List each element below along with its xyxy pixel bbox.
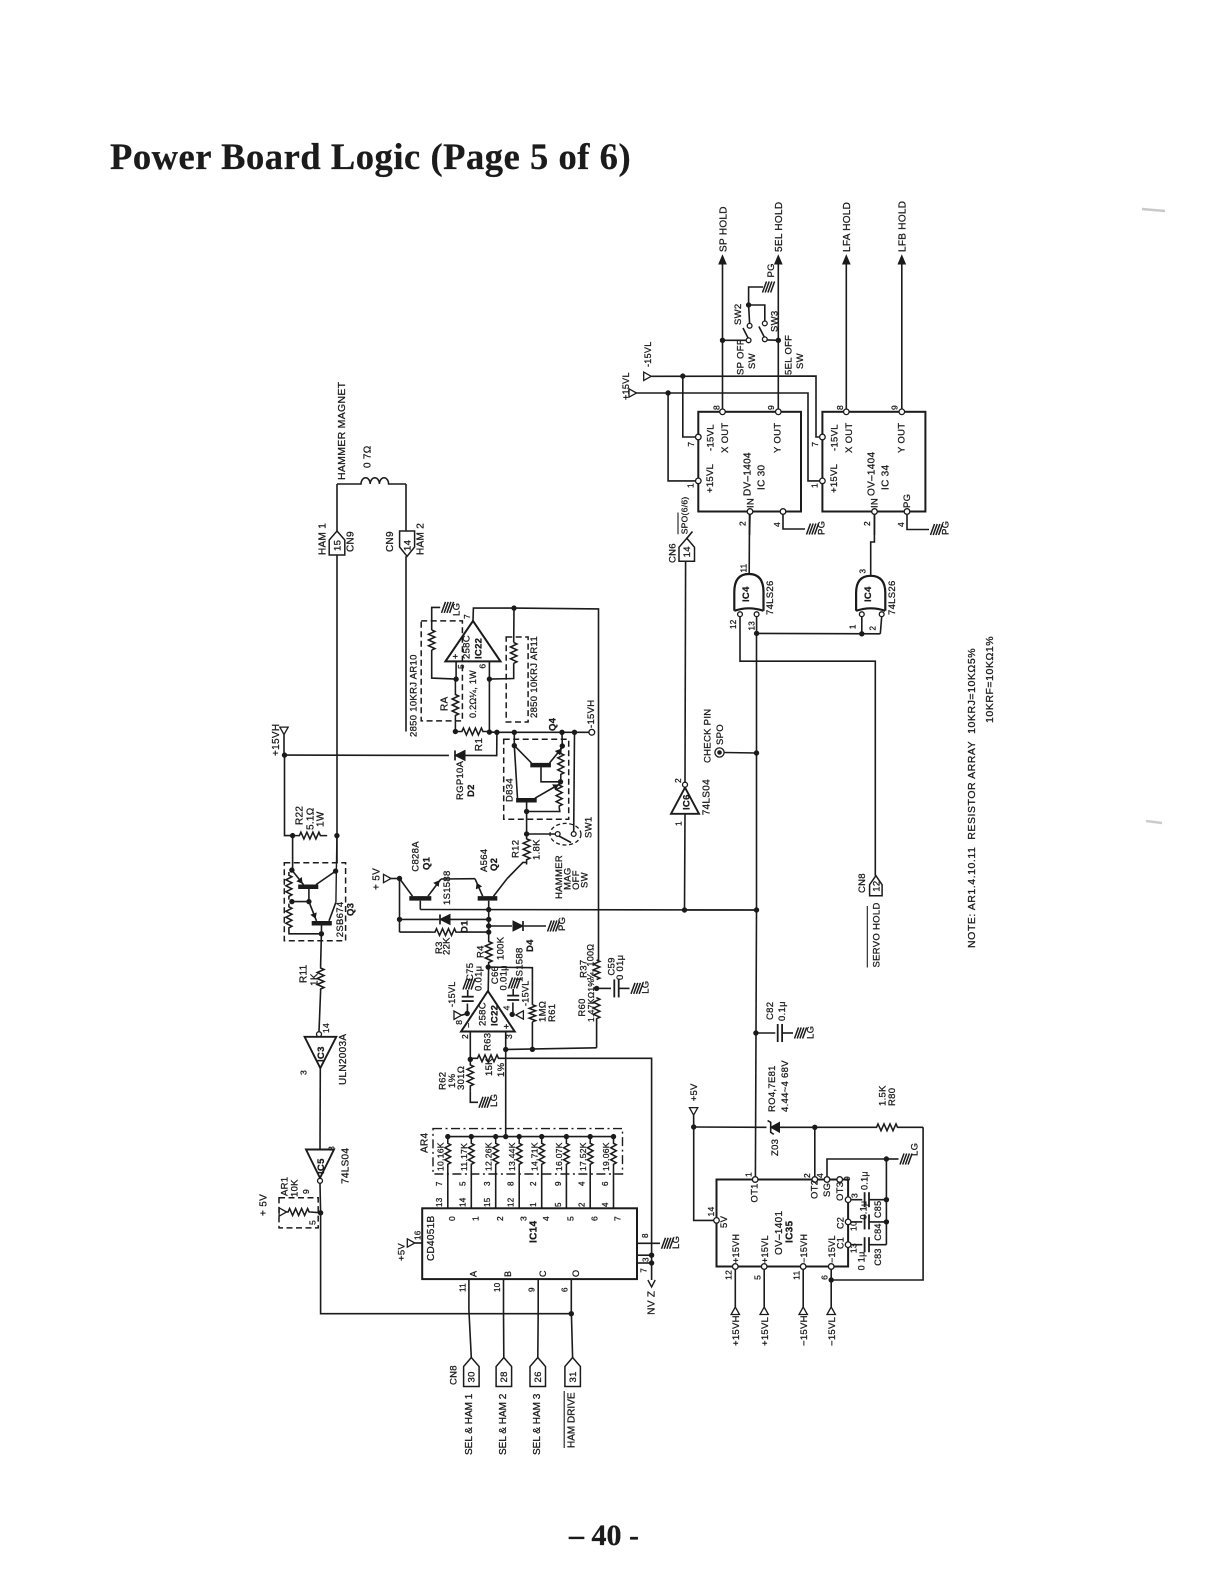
wire pin2 down	[469, 1032, 471, 1060]
svg-text:A: A	[469, 1271, 479, 1277]
wire to CN8 connector 28	[503, 1310, 505, 1358]
terminal -15VH circle	[589, 729, 595, 735]
IC35 pin3	[845, 1197, 851, 1203]
capacitor C59 0.001u	[597, 987, 611, 989]
AR4 resistor 16.07K with pins	[564, 1137, 570, 1171]
wire Q1 to Q2	[441, 878, 475, 880]
svg-text:14: 14	[402, 540, 413, 551]
svg-text:D2: D2	[466, 784, 477, 797]
IC4b input bubbles	[859, 612, 864, 617]
resistor R80 1.5K	[876, 1124, 898, 1131]
svg-text:O: O	[571, 1270, 581, 1277]
IC14 pin3 stub	[637, 1254, 652, 1256]
node D1 right	[487, 917, 491, 921]
svg-text:74LS04: 74LS04	[702, 779, 713, 815]
node R4 bottom junction	[486, 965, 490, 969]
svg-text:R12: R12	[510, 840, 521, 858]
svg-text:28: 28	[499, 1371, 510, 1382]
svg-text:OV–1401: OV–1401	[774, 1211, 785, 1255]
svg-text:-15VL: -15VL	[447, 981, 457, 1007]
svg-text:1: 1	[529, 1202, 538, 1207]
Q3 T2 emitter down	[320, 925, 322, 933]
svg-text:C: C	[538, 1270, 548, 1277]
svg-text:PG: PG	[902, 494, 913, 508]
node check pin branch	[754, 751, 758, 755]
svg-text:−: −	[464, 1022, 474, 1028]
svg-text:R11: R11	[299, 964, 310, 983]
svg-text:-15VL: -15VL	[521, 980, 531, 1006]
wire +15VL down to IC30 pin1	[668, 393, 695, 481]
svg-text:5: 5	[307, 1220, 317, 1225]
wire servo node down to IC35 pin1	[755, 910, 756, 1177]
node R12 top	[524, 832, 528, 836]
wire pin6 down	[488, 661, 490, 679]
svg-text:10: 10	[493, 1282, 502, 1292]
svg-text:CHECK PIN: CHECK PIN	[702, 709, 713, 763]
diode D2 RGP10A	[285, 754, 449, 756]
Q3 T2 base diagonal	[309, 902, 317, 921]
svg-text:−15VL: −15VL	[827, 1317, 838, 1346]
svg-text:0.2Ω¼, 1W: 0.2Ω¼, 1W	[468, 670, 478, 718]
node R3 right	[487, 930, 491, 934]
switch SW3	[762, 321, 767, 326]
wire to CN8 connector 26	[537, 1310, 539, 1358]
svg-text:CN9: CN9	[346, 531, 357, 552]
IC35 pin 6 &#8722;15VL	[828, 1264, 834, 1270]
svg-text:2: 2	[578, 1202, 587, 1207]
svg-text:+15VL: +15VL	[760, 1317, 771, 1346]
svg-text:D1: D1	[459, 920, 470, 933]
svg-text:R61: R61	[547, 1004, 558, 1022]
svg-text:8: 8	[641, 1233, 650, 1238]
wire check-pin vertical	[756, 633, 758, 910]
svg-text:C1: C1	[836, 1237, 846, 1249]
svg-text:6: 6	[819, 1275, 829, 1280]
svg-text:D4: D4	[525, 939, 536, 952]
svg-text:X OUT: X OUT	[844, 422, 855, 453]
scan artifact top right	[1142, 209, 1165, 211]
svg-text:IN: IN	[745, 498, 756, 508]
wire +5V node down	[399, 879, 401, 933]
svg-text:1: 1	[744, 1172, 754, 1177]
wire LFB HOLD line	[901, 263, 903, 409]
capacitor C82 0.1u	[756, 1032, 775, 1034]
IC35 pin 5 +15VL	[761, 1264, 767, 1270]
power symbol &#8722;15VL	[827, 1307, 835, 1315]
svg-text:+15VL: +15VL	[705, 464, 716, 493]
power symbol +15VH	[731, 1307, 739, 1315]
IC34 pin4	[904, 509, 910, 515]
svg-text:+5V: +5V	[396, 1243, 407, 1261]
resistor R37 100ohm	[593, 960, 599, 980]
svg-text:SPO(6/6): SPO(6/6)	[680, 496, 690, 534]
nand gate IC4b 74LS26	[856, 576, 885, 611]
wire Q3 to R11	[320, 934, 323, 966]
svg-text:C82: C82	[765, 1002, 776, 1020]
transistor Q4 D834 dashed box	[504, 739, 569, 819]
svg-text:-15VL: -15VL	[643, 341, 653, 367]
wire R4 node to R61 top	[488, 967, 532, 1005]
resistor R62 301ohm 1%	[467, 1059, 473, 1091]
svg-text:C2: C2	[836, 1217, 846, 1229]
wire AR10 bottom to pin5 node	[432, 650, 456, 679]
Q1 base wire down	[419, 901, 421, 910]
svg-text:5: 5	[566, 1216, 576, 1221]
node zener to OT2	[813, 1125, 817, 1129]
svg-text:CN8: CN8	[857, 873, 868, 893]
svg-text:IC14: IC14	[529, 1221, 540, 1243]
AR4 resistor 14.71K with pins	[539, 1137, 545, 1171]
svg-text:8: 8	[454, 1020, 464, 1025]
wire SP hold to SW2	[723, 339, 747, 341]
svg-text:1S1588: 1S1588	[514, 947, 525, 982]
svg-text:SW: SW	[747, 353, 758, 369]
resistor R12 1.8K	[523, 834, 530, 865]
IC30 pin4	[780, 509, 786, 515]
svg-text:2: 2	[673, 778, 683, 783]
svg-text:IC6: IC6	[681, 794, 692, 810]
Q3 T1 collector diagonal	[316, 871, 336, 885]
svg-text:C85: C85	[873, 1201, 883, 1218]
svg-text:26: 26	[533, 1371, 544, 1382]
svg-text:LG: LG	[671, 1236, 682, 1249]
svg-text:19.06K: 19.06K	[601, 1142, 611, 1171]
capacitor C75 0.01u	[466, 1004, 468, 1014]
diode D1 1S1588	[400, 918, 440, 920]
svg-text:+5V: +5V	[689, 1083, 700, 1101]
svg-text:9: 9	[842, 1176, 852, 1181]
ground LG at C59	[631, 983, 635, 994]
svg-text:IN: IN	[869, 498, 880, 508]
node R1 left	[453, 729, 457, 733]
svg-text:11: 11	[739, 563, 748, 572]
wire pin1 down	[861, 617, 863, 634]
IC35 pin14 5V	[714, 1218, 720, 1224]
svg-text:9: 9	[890, 405, 900, 410]
check pin CHECK PIN SPO	[715, 748, 724, 757]
IC14 CD4051B box	[422, 1208, 637, 1279]
ground LG at SG	[900, 1154, 904, 1165]
wire coil left to HAM1	[336, 484, 338, 531]
resistor array AR11 dashed box	[506, 637, 528, 722]
Q3 transistor T1 base bar	[298, 885, 318, 890]
svg-text:301Ω: 301Ω	[456, 1066, 467, 1090]
svg-text:2: 2	[802, 1173, 812, 1178]
scan artifact mid right	[1146, 821, 1162, 823]
IC34 OV-1404 box	[822, 412, 925, 512]
ground LG at AR10	[442, 602, 446, 613]
node D1 junction left	[397, 917, 401, 921]
wire SP HOLD line	[722, 263, 724, 409]
IC35 pin 11 &#8722;15VH	[800, 1264, 806, 1270]
IC35 pin4 SG	[824, 1177, 830, 1183]
IC35 pin 12 +15VH	[733, 1264, 739, 1270]
svg-text:0: 0	[447, 1216, 457, 1221]
svg-text:0.1μ: 0.1μ	[859, 1201, 869, 1220]
svg-text:+: +	[451, 653, 461, 659]
svg-text:14: 14	[706, 1206, 716, 1216]
node -15VL to IC30	[681, 374, 685, 378]
power symbol +15VL	[760, 1307, 768, 1315]
wire pin5 down	[455, 661, 457, 679]
Q1 emitter diagonal	[400, 879, 413, 897]
svg-text:SP OFF: SP OFF	[735, 339, 746, 375]
IC34 pin8	[844, 409, 850, 415]
wire pin 6 down	[830, 1269, 832, 1307]
svg-text:OT1: OT1	[749, 1183, 760, 1202]
svg-text:9: 9	[766, 405, 776, 410]
svg-text:IC22: IC22	[489, 1005, 500, 1026]
IC30 DV-1404 box	[698, 412, 801, 512]
svg-text:CD4051B: CD4051B	[426, 1216, 437, 1261]
svg-text:2: 2	[495, 1216, 505, 1221]
wire IC4a output up to IC30 pin2	[748, 514, 750, 574]
wire R63-AR4 vertical	[505, 1050, 507, 1137]
wire pin4	[510, 1012, 514, 1016]
svg-text:CN8: CN8	[448, 1365, 459, 1385]
connector CN8 pin 28	[496, 1358, 512, 1387]
svg-text:258C: 258C	[461, 635, 472, 659]
wire to CN8 connector 31	[571, 1310, 572, 1358]
wire SG up to LG	[827, 1159, 884, 1177]
svg-text:LFB HOLD: LFB HOLD	[898, 201, 909, 252]
svg-text:IC22: IC22	[473, 638, 484, 659]
wire SW3 to SEL hold	[767, 339, 778, 341]
power symbol &#8722;15VH	[799, 1307, 807, 1315]
svg-text:8: 8	[507, 1181, 516, 1186]
svg-text:1: 1	[848, 624, 857, 629]
svg-text:8: 8	[327, 1146, 337, 1151]
wire IC4b output up to IC34 pin2	[871, 514, 875, 576]
svg-text:3: 3	[858, 569, 867, 574]
inverter IC3 ULN2003A	[317, 1032, 322, 1037]
wire coil right to HAM2	[405, 484, 407, 531]
nand gate IC4a 74LS26	[734, 574, 763, 611]
svg-text:3: 3	[641, 1257, 650, 1262]
wire +5V down to pin14	[694, 1127, 714, 1220]
IC14 pin8 LG ground	[637, 1242, 660, 1244]
svg-text:9: 9	[528, 1287, 537, 1292]
wire R1 to D2 node	[489, 731, 497, 733]
connector CN8 pin 30	[464, 1358, 480, 1387]
wire R80 return to -15VL pin	[831, 1127, 923, 1280]
ground PG at D4	[548, 921, 552, 932]
C75 ground hatches	[463, 979, 467, 990]
wire to CN8 connector 30	[469, 1310, 471, 1358]
svg-text:AR4: AR4	[420, 1133, 431, 1153]
svg-text:SEL & HAM 3: SEL & HAM 3	[532, 1393, 543, 1455]
svg-text:1.8K: 1.8K	[531, 839, 542, 860]
wire R63 line to NVZ column	[506, 1058, 652, 1255]
svg-text:5EL HOLD: 5EL HOLD	[774, 202, 785, 252]
svg-text:4: 4	[896, 522, 906, 527]
svg-text:2850 10KRJ AR10: 2850 10KRJ AR10	[408, 654, 419, 737]
connector CN8 pin 31	[565, 1358, 581, 1387]
svg-text:¼, 100Ω: ¼, 100Ω	[586, 944, 596, 980]
svg-text:4: 4	[601, 1202, 610, 1207]
svg-text:+15VH: +15VH	[731, 1315, 742, 1346]
svg-text:C828A: C828A	[410, 841, 421, 872]
svg-text:+15VL: +15VL	[829, 464, 840, 493]
svg-text:14.71K: 14.71K	[529, 1142, 539, 1171]
svg-text:3: 3	[299, 1070, 309, 1075]
svg-text:+15VL: +15VL	[760, 1235, 770, 1263]
resistor R22 5.1ohm 1W	[293, 832, 328, 839]
svg-text:9: 9	[301, 1189, 311, 1194]
svg-text:7: 7	[686, 442, 696, 447]
IC34 pin1	[820, 478, 826, 484]
transistor Q1 C828A base bar	[409, 896, 431, 901]
svg-text:11: 11	[791, 1270, 801, 1279]
svg-text:10K: 10K	[289, 1179, 300, 1197]
svg-text:0.01μ: 0.01μ	[473, 966, 484, 991]
svg-text:CN6: CN6	[667, 543, 678, 563]
Q3 T1 base to mid node	[308, 889, 310, 902]
node ham drive junction	[569, 1312, 573, 1316]
wire R11 to IC3	[319, 991, 321, 1031]
svg-text:OT2: OT2	[809, 1180, 820, 1199]
svg-text:0.1μ: 0.1μ	[860, 1171, 870, 1190]
svg-text:2: 2	[460, 1034, 470, 1039]
svg-text:LG: LG	[909, 1143, 920, 1156]
NVZ arrow	[648, 1280, 655, 1287]
wire node line y910	[685, 909, 757, 911]
svg-text:RGP10A: RGP10A	[455, 760, 466, 800]
IC4a input bubbles	[738, 612, 743, 617]
Q4 T2 left diagonal	[514, 746, 517, 799]
connector CN9 pin 15 HAM1	[329, 531, 345, 555]
svg-text:Z03: Z03	[770, 1139, 781, 1156]
wire HAM1 down to R22/Q3	[336, 555, 338, 863]
svg-text:5: 5	[752, 1275, 762, 1280]
svg-text:14: 14	[459, 1197, 468, 1207]
wire LFA HOLD line	[845, 263, 847, 409]
connector CN8 pin 12	[870, 876, 883, 896]
svg-text:2SB674: 2SB674	[335, 902, 346, 938]
svg-text:7: 7	[639, 1268, 648, 1273]
svg-text:-15VH: -15VH	[586, 700, 597, 728]
svg-text:Q3: Q3	[345, 903, 356, 916]
wire AR11 top to node	[513, 608, 515, 642]
svg-text:SW1: SW1	[583, 817, 594, 839]
svg-text:LG: LG	[805, 1026, 816, 1039]
Q4 T2 base vertical	[526, 803, 528, 835]
ground PG above switches	[763, 282, 767, 293]
capacitor C84 0.1u	[851, 1221, 862, 1223]
svg-text:PG: PG	[766, 263, 777, 277]
svg-text:12: 12	[871, 881, 882, 892]
svg-text:11: 11	[458, 1283, 467, 1292]
svg-text:X OUT: X OUT	[720, 422, 731, 453]
svg-text:3: 3	[518, 1216, 528, 1221]
wire pin 11 down	[802, 1269, 804, 1307]
Q2 base wire down	[488, 901, 490, 941]
IC30 pin8	[720, 409, 726, 415]
node Q4 mid	[558, 780, 562, 784]
wire -15VL to pin8	[462, 1014, 467, 1015]
svg-text:OV–1404: OV–1404	[867, 452, 878, 496]
IC35 OV-1401 box	[717, 1180, 849, 1267]
svg-text:B: B	[503, 1271, 513, 1277]
wire R22 left into Q3	[292, 836, 294, 871]
resistor AR1 element	[287, 1209, 311, 1216]
svg-text:LG: LG	[640, 981, 651, 994]
node output/AR11 top	[512, 606, 516, 610]
svg-text:Power Board Logic (Page 5 of 6: Power Board Logic (Page 5 of 6)	[110, 136, 631, 177]
svg-text:Q2: Q2	[489, 858, 500, 871]
svg-text:2: 2	[529, 1181, 538, 1186]
wire into Q4 right node	[561, 732, 563, 746]
svg-text:+15VL: +15VL	[621, 372, 631, 400]
svg-text:0 01μ: 0 01μ	[615, 955, 626, 980]
Q2 emitter diagonal	[475, 879, 483, 897]
svg-text:NOTE: AR1.4.10.11 RESISTOR AR: NOTE: AR1.4.10.11 RESISTOR ARRAY 10KRJ=1…	[966, 648, 978, 948]
svg-text:IC4: IC4	[741, 586, 752, 602]
svg-text:Y OUT: Y OUT	[896, 423, 907, 453]
inductor hammer magnet coil	[337, 478, 406, 484]
node +15VL to IC30	[666, 391, 670, 395]
svg-text:-15VL: -15VL	[705, 424, 716, 451]
wire OT2 down	[814, 1127, 816, 1177]
wire SW2 node to SW3	[749, 305, 765, 321]
wire AR11 bottom to pin6 node	[489, 663, 513, 679]
svg-text:8: 8	[712, 405, 722, 410]
svg-text:15: 15	[483, 1197, 492, 1207]
switch SW2	[746, 338, 751, 343]
svg-text:HAM 1: HAM 1	[318, 523, 329, 555]
IC14 pin7 stub	[637, 1262, 652, 1264]
svg-text:2850 10KRJ AR11: 2850 10KRJ AR11	[529, 636, 540, 718]
svg-text:– 40 -: – 40 -	[568, 1519, 639, 1552]
IC30 pin2	[747, 509, 753, 515]
resistor R63 15K 1%	[470, 1055, 505, 1062]
IC35 pin2 OT2	[812, 1177, 818, 1183]
svg-text:12: 12	[723, 1270, 733, 1280]
Q1 collector diagonal	[428, 879, 441, 896]
svg-text:SPO: SPO	[715, 724, 726, 745]
wire PG stub	[749, 287, 763, 305]
svg-text:11.17K: 11.17K	[459, 1143, 469, 1171]
node IC6 line bottom	[682, 908, 686, 912]
capacitor C66 0.01u	[512, 1003, 514, 1015]
svg-text:13: 13	[747, 621, 756, 631]
AR4 resistor 10.16K with pins	[445, 1137, 451, 1171]
wire pin13 down	[756, 617, 758, 634]
wire IC6 output up to CN6	[684, 561, 687, 782]
wire IC30 pin2 to gate	[749, 514, 752, 535]
IC30 pin1	[696, 478, 702, 484]
resistor array AR10 dashed box	[421, 621, 462, 721]
wire IC34 pin2 to gate	[873, 514, 875, 535]
svg-text:2: 2	[738, 521, 748, 526]
wire to R80	[815, 1126, 876, 1128]
AR4 resistor 11.17K with pins	[469, 1137, 475, 1171]
svg-text:31: 31	[568, 1371, 579, 1382]
resistor R1 0.2ohm	[455, 728, 489, 735]
wire pin 5 down	[763, 1269, 765, 1307]
IC34 pin9	[899, 409, 905, 415]
svg-text:Y OUT: Y OUT	[772, 423, 783, 453]
node SW3 branch	[776, 338, 780, 342]
svg-text:5: 5	[456, 664, 466, 669]
wire R4 to op-amp apex	[487, 963, 490, 991]
svg-text:C84: C84	[873, 1223, 883, 1240]
svg-text:1: 1	[674, 821, 684, 826]
svg-text:C83: C83	[873, 1248, 883, 1265]
IC30 pin4 to PG ground	[783, 514, 805, 529]
svg-text:74LS26: 74LS26	[765, 580, 776, 615]
node cap common	[884, 1157, 888, 1161]
